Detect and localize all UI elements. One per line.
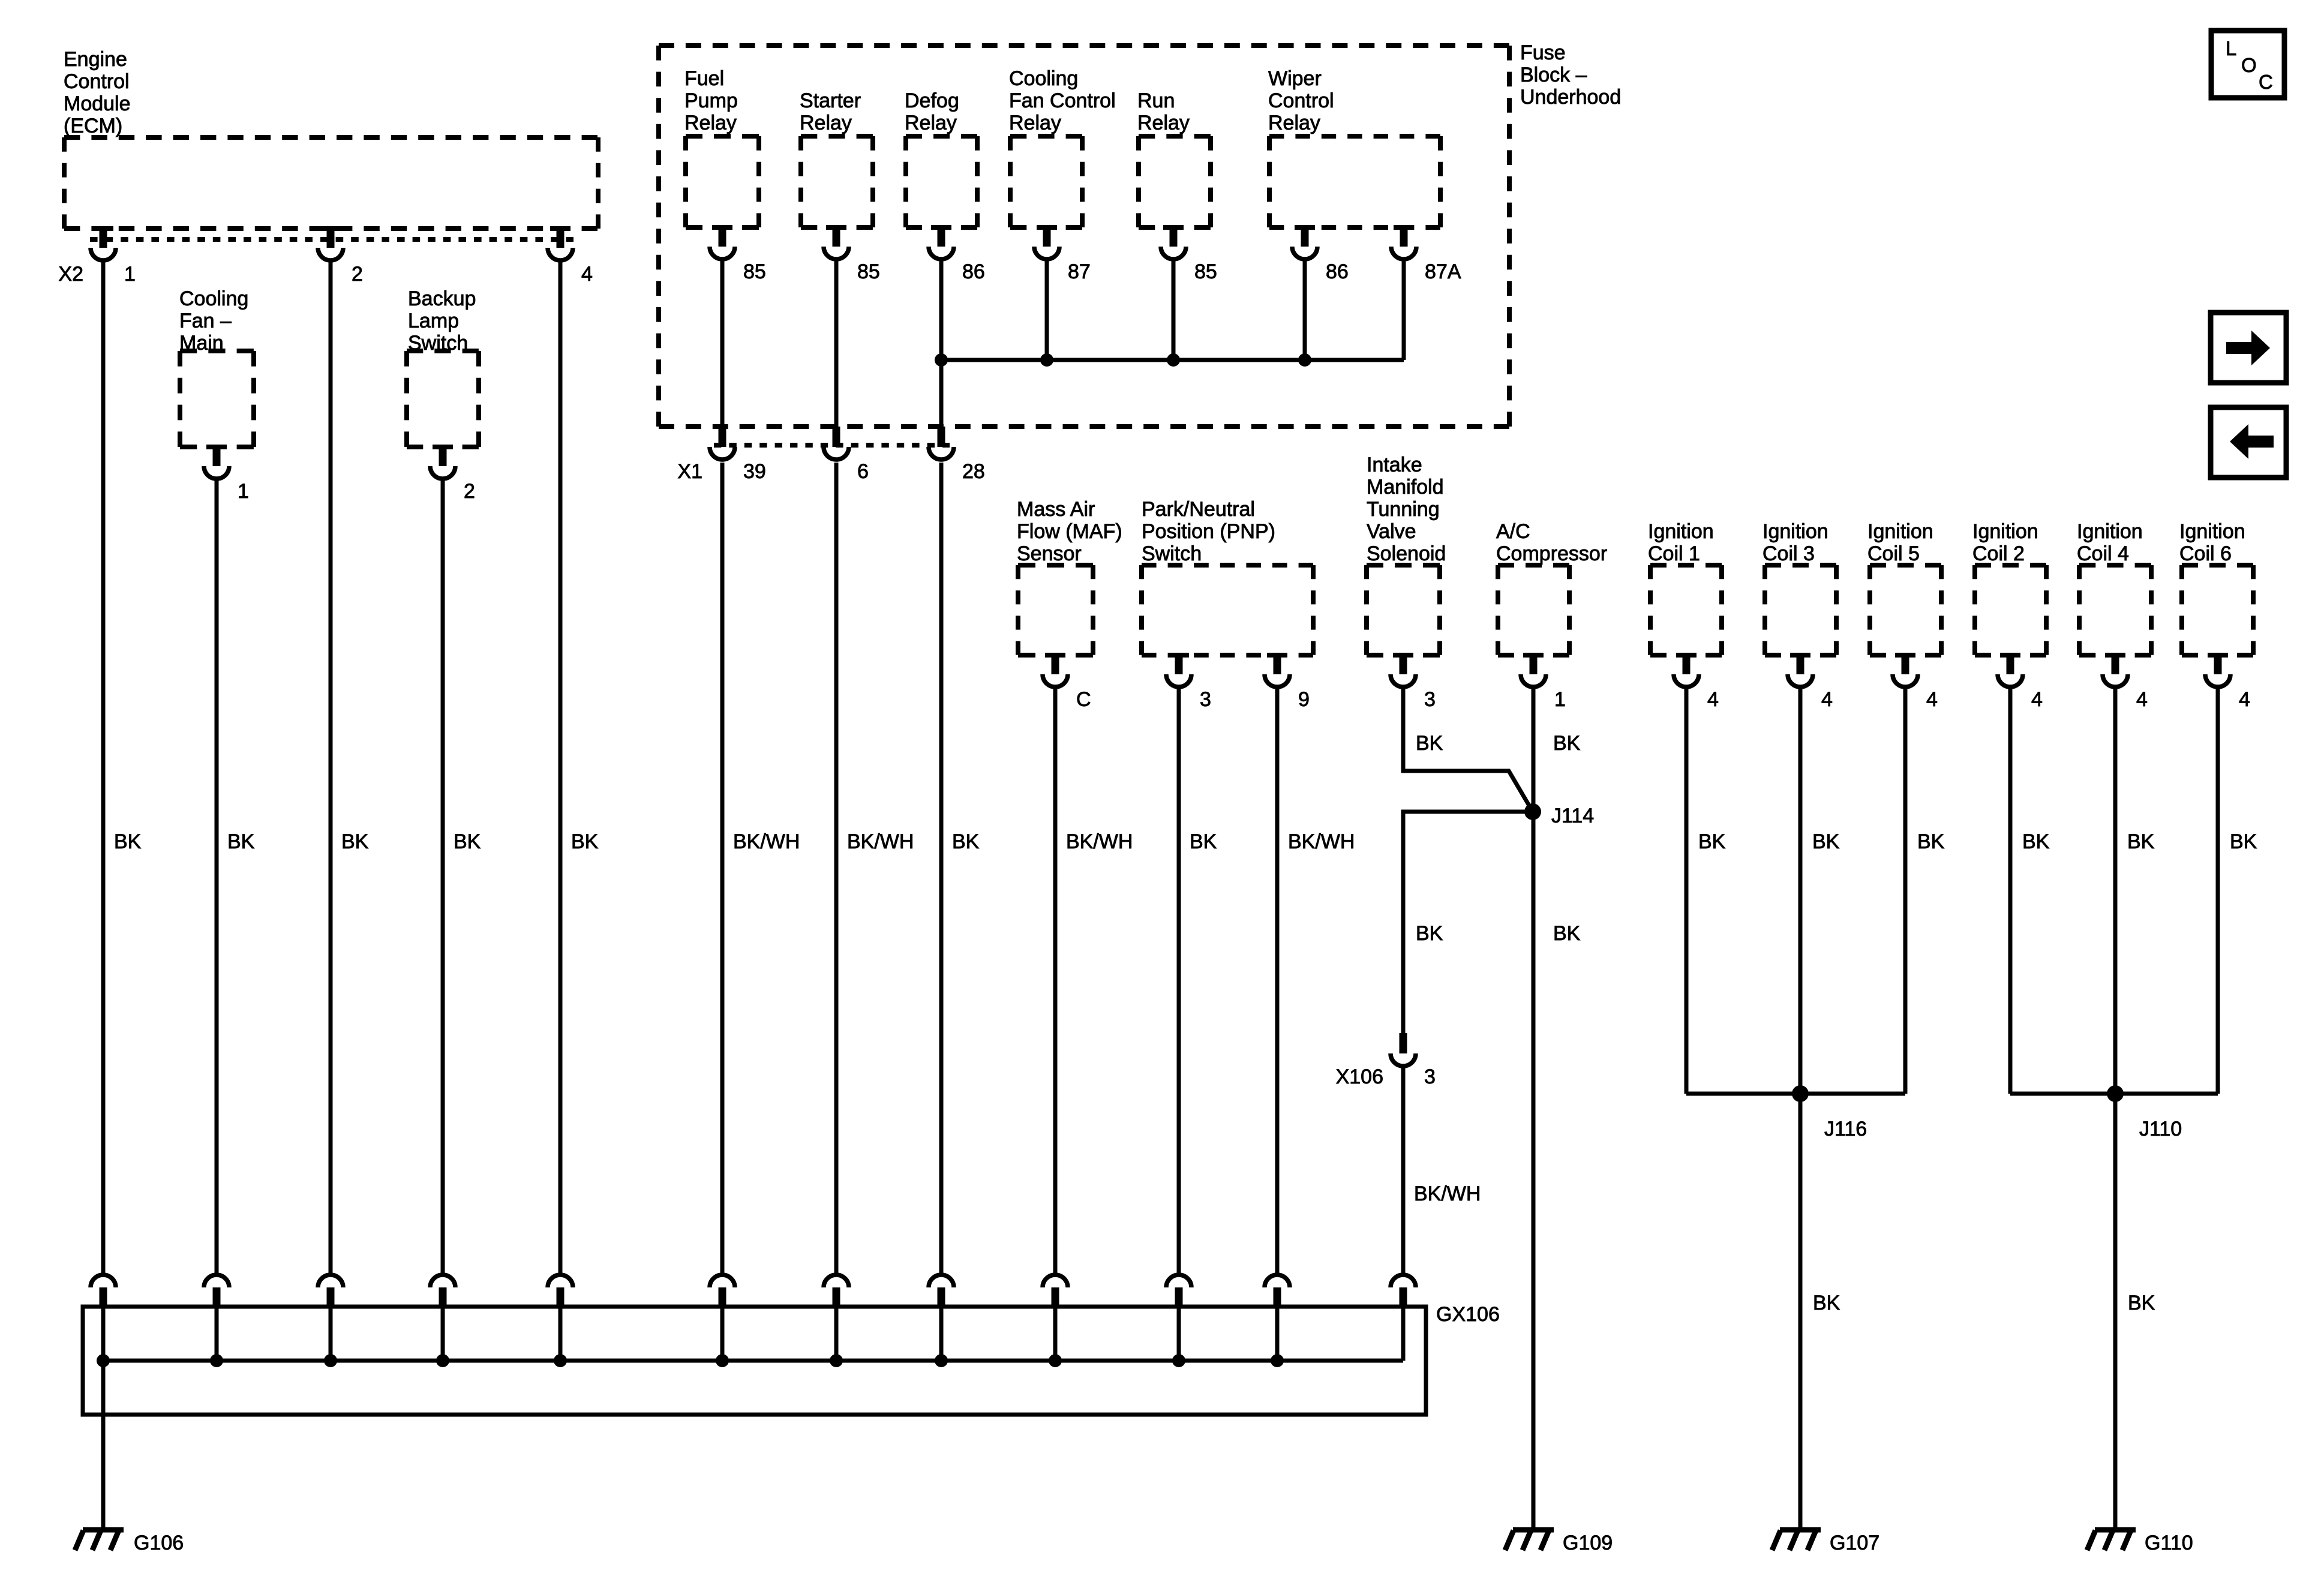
wire defog relay to X1 — [939, 259, 944, 428]
junction bus/87 — [1040, 353, 1053, 367]
svg-text:BK: BK — [2128, 1292, 2155, 1314]
label BK coil 2 — [2022, 830, 2050, 853]
arrow box left — [2211, 407, 2286, 478]
wire terminal stub — [720, 1307, 725, 1361]
svg-text:Switch: Switch — [1142, 542, 1202, 565]
wire relay 85 (run) to bus — [1172, 259, 1176, 360]
svg-text:Cooling: Cooling — [1009, 67, 1078, 90]
junction GX106 x=1965 — [1172, 1354, 1185, 1367]
svg-text:Wiper: Wiper — [1268, 67, 1322, 90]
wire x=1965 to GX106 (BK) — [1177, 686, 1181, 1274]
connector face X1 dotted line — [714, 443, 950, 448]
svg-text:J116: J116 — [1824, 1118, 1867, 1140]
bus wire inside fuse block — [941, 358, 1404, 362]
label BK coil 1 — [1698, 830, 1726, 853]
wire x=2129 to GX106 (BK/WH) — [1275, 686, 1280, 1274]
ECM box — [64, 137, 598, 229]
svg-text:1: 1 — [238, 480, 249, 503]
wire ignition coil 1 (BK) — [1685, 688, 1689, 1094]
label BK/WH — [1288, 830, 1355, 853]
Cooling Fan Control Relay box — [1010, 136, 1082, 227]
wire terminal stub — [441, 1307, 445, 1361]
pin X1-39 — [710, 427, 766, 483]
connector GX106 terminal x=551 — [318, 1275, 343, 1307]
pin X2-1 — [91, 226, 136, 286]
pin Ignition Coil 4 4 — [2103, 653, 2148, 711]
svg-text:BK: BK — [454, 830, 481, 853]
svg-text:1: 1 — [124, 263, 136, 286]
svg-text:BK: BK — [2022, 830, 2050, 853]
wire x=934 to GX106 (BK) — [559, 260, 563, 1274]
wire x=1394 to GX106 (BK/WH) — [834, 463, 839, 1274]
connector GX106 terminal x=2129 — [1265, 1275, 1290, 1307]
svg-text:BK: BK — [1553, 922, 1581, 945]
wire terminal stub — [1177, 1307, 1181, 1361]
label BK G110 wire — [2128, 1292, 2155, 1314]
wire X106 to GX106 (BK/WH) — [1401, 1067, 1406, 1274]
svg-text:Underhood: Underhood — [1520, 86, 1621, 109]
label Ignition Coil 2 — [1972, 520, 2038, 565]
svg-text:Manifold: Manifold — [1367, 476, 1444, 499]
svg-text:Run: Run — [1137, 89, 1175, 112]
svg-text:J110: J110 — [2139, 1118, 2182, 1140]
junction GX106 x=1759 — [1049, 1354, 1062, 1367]
svg-text:BK/WH: BK/WH — [1288, 830, 1355, 853]
svg-text:2: 2 — [352, 263, 363, 286]
svg-text:4: 4 — [1926, 688, 1938, 711]
label BK/WH — [1066, 830, 1133, 853]
wire ignition coil 5 (BK) — [1903, 688, 1908, 1094]
svg-text:Lamp: Lamp — [408, 310, 459, 332]
svg-text:Backup: Backup — [408, 287, 476, 310]
wire ignition coil 6 (BK) — [2216, 688, 2220, 1094]
Mass Air Flow (MAF) Sensor box — [1018, 565, 1093, 655]
junction GX106 x=361 — [210, 1354, 223, 1367]
connector GX106 terminal x=361 — [204, 1275, 229, 1307]
label BK — [114, 830, 142, 853]
svg-text:4: 4 — [2136, 688, 2148, 711]
label Engine Control Module (ECM) — [64, 48, 131, 137]
pin X2-2 — [318, 226, 363, 286]
Intake Manifold Tunning Valve Solenoid box — [1367, 565, 1440, 655]
svg-text:BK: BK — [952, 830, 980, 853]
svg-text:Relay: Relay — [1137, 112, 1190, 134]
pin Backup Lamp Switch 2 — [430, 445, 475, 503]
svg-text:G109: G109 — [1563, 1532, 1613, 1554]
label BK — [341, 830, 369, 853]
GX106 bus wire — [103, 1359, 1403, 1363]
GX106 box — [83, 1307, 1426, 1415]
junction GX106 x=1569 — [935, 1354, 948, 1367]
pin Park/Neutral Position (PNP) Switch 3 — [1166, 653, 1211, 711]
connector GX106 terminal x=934 — [548, 1275, 573, 1307]
svg-text:Position (PNP): Position (PNP) — [1142, 520, 1275, 543]
ground G110 — [2087, 1530, 2193, 1554]
wire solenoid pin 3 to J114 (BK) — [1403, 686, 1533, 812]
svg-text:BK: BK — [1813, 1292, 1840, 1314]
pin Ignition Coil 5 4 — [1893, 653, 1938, 711]
wire J114 to X106 (BK) — [1403, 812, 1533, 1034]
connector GX106 terminal x=2339 — [1391, 1275, 1416, 1307]
label Starter Relay — [800, 89, 861, 134]
Wiper Control Relay box — [1269, 136, 1440, 227]
label Mass Air Flow (MAF) Sensor — [1017, 498, 1122, 565]
svg-text:Block –: Block – — [1520, 64, 1587, 86]
svg-text:Ignition: Ignition — [2179, 520, 2245, 543]
label BK — [227, 830, 255, 853]
svg-text:2: 2 — [464, 480, 475, 503]
svg-text:Coil 1: Coil 1 — [1648, 542, 1700, 565]
label Backup Lamp Switch — [408, 287, 476, 355]
svg-text:Ignition: Ignition — [2077, 520, 2143, 543]
Run Relay box — [1139, 136, 1211, 227]
label BK A/C wire lower — [1553, 922, 1581, 945]
svg-text:Relay: Relay — [800, 112, 852, 134]
label BK A/C wire upper — [1553, 732, 1581, 755]
wire terminal stub — [1053, 1307, 1058, 1361]
svg-text:BK: BK — [2230, 830, 2257, 853]
pin Park/Neutral Position (PNP) Switch 9 — [1265, 653, 1310, 711]
svg-text:Tunning: Tunning — [1367, 498, 1440, 521]
label BK — [454, 830, 481, 853]
svg-text:Control: Control — [1268, 89, 1334, 112]
pin Intake Manifold Tunning Valve Solenoid 3 — [1391, 653, 1436, 711]
connector GX106 terminal x=1204 — [710, 1275, 735, 1307]
label Fuel Pump Relay — [684, 67, 738, 134]
svg-text:Coil 4: Coil 4 — [2077, 542, 2129, 565]
svg-text:85: 85 — [1194, 260, 1217, 283]
Defog Relay box — [906, 136, 977, 227]
svg-text:3: 3 — [1424, 688, 1436, 711]
pin Ignition Coil 1 4 — [1674, 653, 1719, 711]
svg-text:Coil 5: Coil 5 — [1867, 542, 1920, 565]
connector name X2 — [58, 263, 83, 286]
bus wire coils 1-3-5 — [1686, 1092, 1905, 1096]
ground G109 — [1505, 1530, 1613, 1554]
svg-text:BK/WH: BK/WH — [1414, 1182, 1481, 1205]
label Cooling Fan Control Relay — [1009, 67, 1116, 134]
pin Cooling Fan Control Relay 87 — [1034, 225, 1091, 283]
svg-text:4: 4 — [1821, 688, 1833, 711]
svg-text:6: 6 — [857, 460, 869, 483]
svg-text:X1: X1 — [677, 460, 702, 483]
junction GX106 x=934 — [554, 1354, 567, 1367]
svg-text:BK: BK — [341, 830, 369, 853]
wire terminal stub — [1275, 1307, 1280, 1361]
wire terminal stub — [1401, 1307, 1406, 1361]
svg-text:85: 85 — [743, 260, 766, 283]
svg-text:Ignition: Ignition — [1648, 520, 1714, 543]
wire terminal stub — [101, 1307, 106, 1361]
svg-text:BK/WH: BK/WH — [733, 830, 800, 853]
pin X2-4 — [548, 226, 593, 286]
svg-text:Fuse: Fuse — [1520, 41, 1566, 64]
wire terminal stub — [329, 1307, 333, 1361]
ground G107 — [1772, 1530, 1879, 1554]
svg-text:C: C — [2259, 71, 2273, 93]
svg-text:85: 85 — [857, 260, 880, 283]
svg-text:Valve: Valve — [1367, 520, 1416, 543]
label Ignition Coil 6 — [2179, 520, 2245, 565]
svg-text:Ignition: Ignition — [1972, 520, 2038, 543]
pin Ignition Coil 3 4 — [1788, 653, 1833, 711]
wire GX106 to G106 — [101, 1361, 106, 1529]
wire terminal stub — [939, 1307, 944, 1361]
svg-text:4: 4 — [2031, 688, 2043, 711]
connector face X2 dotted line — [90, 237, 574, 242]
svg-text:4: 4 — [2239, 688, 2250, 711]
junction GX106 x=172 — [97, 1354, 110, 1367]
svg-text:BK: BK — [114, 830, 142, 853]
wire terminal stub — [215, 1307, 219, 1361]
wire A/C compressor pin 1 to G109 (BK) — [1532, 686, 1536, 1529]
wire terminal stub — [834, 1307, 839, 1361]
connector GX106 terminal x=1759 — [1043, 1275, 1068, 1307]
svg-text:4: 4 — [1707, 688, 1719, 711]
svg-text:BK: BK — [1812, 830, 1840, 853]
svg-text:Fan Control: Fan Control — [1009, 89, 1116, 112]
svg-text:Ignition: Ignition — [1867, 520, 1933, 543]
label Defog Relay — [905, 89, 959, 134]
connector GX106 terminal x=172 — [91, 1275, 116, 1307]
svg-text:87: 87 — [1068, 260, 1091, 283]
svg-text:X2: X2 — [58, 263, 83, 286]
connector X106 pin 3 — [1336, 1033, 1436, 1088]
svg-text:39: 39 — [743, 460, 766, 483]
label BK coil 5 — [1917, 830, 1945, 853]
pin X1-28 — [929, 427, 985, 483]
pin Ignition Coil 6 4 — [2205, 653, 2250, 711]
junction bus/85 — [1167, 353, 1180, 367]
connector GX106 terminal x=1394 — [824, 1275, 849, 1307]
pin Cooling Fan 1 — [204, 445, 249, 503]
label BK G107 wire — [1813, 1292, 1840, 1314]
pin Fuel Pump Relay 85 — [710, 225, 766, 283]
svg-text:BK: BK — [1698, 830, 1726, 853]
svg-text:BK: BK — [1190, 830, 1217, 853]
wire x=551 to GX106 (BK) — [329, 260, 333, 1274]
Ignition Coil 3 box — [1765, 565, 1836, 655]
svg-text:87A: 87A — [1425, 260, 1461, 283]
svg-text:Fan –: Fan – — [179, 310, 232, 332]
svg-text:3: 3 — [1200, 688, 1211, 711]
wire x=1204 to GX106 (BK/WH) — [720, 463, 725, 1274]
Ignition Coil 5 box — [1870, 565, 1941, 655]
svg-text:Relay: Relay — [905, 112, 957, 134]
svg-text:9: 9 — [1298, 688, 1310, 711]
junction GX106 x=738 — [436, 1354, 449, 1367]
svg-text:BK: BK — [1917, 830, 1945, 853]
wire x=1759 to GX106 (BK/WH) — [1053, 686, 1058, 1274]
svg-text:Starter: Starter — [800, 89, 861, 112]
Backup Lamp Switch box — [407, 351, 479, 447]
wire fuel pump relay to X1 — [720, 259, 725, 428]
Ignition Coil 2 box — [1975, 565, 2046, 655]
svg-text:J114: J114 — [1551, 804, 1594, 827]
svg-text:BK: BK — [1416, 732, 1443, 755]
bus wire coils 2-4-6 — [2010, 1092, 2218, 1096]
wire terminal stub — [559, 1307, 563, 1361]
junction J114 — [1524, 803, 1594, 827]
wire ignition coil 2 (BK) — [2008, 688, 2013, 1094]
label Ignition Coil 5 — [1867, 520, 1933, 565]
svg-text:Coil 2: Coil 2 — [1972, 542, 2025, 565]
Fuse Block - Underhood box — [659, 46, 1509, 427]
wire ignition coil 3 to G107 (BK) — [1798, 688, 1803, 1529]
svg-text:Relay: Relay — [1009, 112, 1061, 134]
svg-text:G107: G107 — [1830, 1532, 1879, 1554]
label Ignition Coil 3 — [1762, 520, 1828, 565]
svg-text:86: 86 — [962, 260, 985, 283]
label BK — [571, 830, 599, 853]
label BK J114-X106 wire — [1416, 922, 1443, 945]
svg-text:Relay: Relay — [1268, 112, 1320, 134]
label Fuse Block - Underhood — [1520, 41, 1621, 109]
pin X1-6 — [824, 427, 869, 483]
Starter Relay box — [801, 136, 873, 227]
pin Defog Relay 86 — [929, 225, 985, 283]
svg-text:X106: X106 — [1336, 1065, 1383, 1088]
Cooling Fan - Main box — [180, 351, 254, 447]
Fuel Pump Relay box — [686, 136, 759, 227]
connector GX106 terminal x=1965 — [1166, 1275, 1191, 1307]
svg-text:BK: BK — [2127, 830, 2155, 853]
svg-text:Ignition: Ignition — [1762, 520, 1828, 543]
wire relay 87 to bus — [1045, 259, 1049, 360]
junction GX106 x=1204 — [716, 1354, 729, 1367]
svg-text:Coil 3: Coil 3 — [1762, 542, 1815, 565]
ground G106 — [75, 1530, 184, 1554]
label BK/WH X106 wire — [1414, 1182, 1481, 1205]
Park/Neutral Position (PNP) Switch box — [1142, 565, 1313, 655]
svg-text:Relay: Relay — [684, 112, 737, 134]
label BK — [952, 830, 980, 853]
svg-text:BK/WH: BK/WH — [1066, 830, 1133, 853]
junction GX106 x=551 — [324, 1354, 337, 1367]
svg-text:G106: G106 — [134, 1532, 184, 1554]
label Cooling Fan - Main — [179, 287, 248, 355]
svg-text:Control: Control — [64, 70, 130, 93]
junction J110 — [2107, 1085, 2182, 1140]
A/C Compressor box — [1498, 565, 1569, 655]
wire relay 87A to bus — [1402, 259, 1406, 360]
pin Run Relay 85 — [1161, 225, 1217, 283]
Ignition Coil 6 box — [2182, 565, 2253, 655]
pin Mass Air Flow (MAF) Sensor C — [1043, 653, 1091, 711]
svg-text:Compressor: Compressor — [1496, 542, 1607, 565]
svg-text:Cooling: Cooling — [179, 287, 248, 310]
pin A/C Compressor 1 — [1521, 653, 1566, 711]
label Run Relay — [1137, 89, 1190, 134]
junction J116 — [1792, 1085, 1867, 1140]
junction on defog wire — [935, 353, 948, 367]
svg-text:4: 4 — [581, 263, 593, 286]
junction bus/86 — [1298, 353, 1311, 367]
svg-text:BK: BK — [1416, 922, 1443, 945]
label BK solenoid wire — [1416, 732, 1443, 755]
wire ignition coil 4 to G110 (BK) — [2113, 688, 2118, 1529]
label BK coil 3 — [1812, 830, 1840, 853]
junction GX106 x=1394 — [830, 1354, 843, 1367]
label A/C Compressor — [1496, 520, 1607, 565]
svg-text:C: C — [1076, 688, 1091, 711]
svg-text:A/C: A/C — [1496, 520, 1530, 543]
svg-text:Fuel: Fuel — [684, 67, 724, 90]
label Park/Neutral Position (PNP) Switch — [1142, 498, 1275, 565]
svg-text:G110: G110 — [2145, 1532, 2193, 1554]
wire relay 86 (wiper) to bus — [1303, 259, 1307, 360]
svg-text:BK: BK — [571, 830, 599, 853]
svg-text:(ECM): (ECM) — [64, 115, 122, 137]
pin Starter Relay 85 — [824, 225, 880, 283]
label BK/WH — [847, 830, 914, 853]
Ignition Coil 4 box — [2079, 565, 2151, 655]
svg-text:BK/WH: BK/WH — [847, 830, 914, 853]
svg-text:Sensor: Sensor — [1017, 542, 1082, 565]
junction GX106 x=2129 — [1271, 1354, 1284, 1367]
svg-text:BK: BK — [1553, 732, 1581, 755]
svg-text:3: 3 — [1424, 1065, 1436, 1088]
pin Wiper Control Relay 86 — [1292, 225, 1349, 283]
svg-text:Park/Neutral: Park/Neutral — [1142, 498, 1255, 521]
arrow box right — [2211, 313, 2286, 383]
svg-text:BK: BK — [227, 830, 255, 853]
label BK coil 4 — [2127, 830, 2155, 853]
label GX106 — [1436, 1303, 1500, 1326]
svg-text:Engine: Engine — [64, 48, 127, 71]
connector GX106 terminal x=1569 — [929, 1275, 954, 1307]
label Wiper Control Relay — [1268, 67, 1334, 134]
svg-text:Flow (MAF): Flow (MAF) — [1017, 520, 1122, 543]
wire x=361 to GX106 (BK) — [215, 478, 219, 1274]
svg-text:L: L — [2226, 37, 2236, 59]
wire starter relay to X1 — [834, 259, 839, 428]
svg-text:Pump: Pump — [684, 89, 738, 112]
LOC reference box — [2211, 31, 2284, 98]
svg-text:Module: Module — [64, 92, 131, 115]
Ignition Coil 1 box — [1650, 565, 1722, 655]
wire x=738 to GX106 (BK) — [441, 478, 445, 1274]
svg-text:Coil 6: Coil 6 — [2179, 542, 2232, 565]
label Ignition Coil 1 — [1648, 520, 1714, 565]
svg-text:GX106: GX106 — [1436, 1303, 1500, 1326]
svg-text:Solenoid: Solenoid — [1367, 542, 1446, 565]
label Intake Manifold Tunning Valve Solenoid — [1367, 454, 1446, 565]
wire x=172 to GX106 (BK) — [101, 260, 106, 1274]
svg-text:Intake: Intake — [1367, 454, 1422, 476]
svg-text:1: 1 — [1554, 688, 1566, 711]
svg-text:Mass Air: Mass Air — [1017, 498, 1095, 521]
svg-text:O: O — [2241, 54, 2257, 76]
label BK coil 6 — [2230, 830, 2257, 853]
connector GX106 terminal x=738 — [430, 1275, 455, 1307]
svg-text:86: 86 — [1326, 260, 1349, 283]
svg-text:28: 28 — [962, 460, 985, 483]
connector name X1 — [677, 460, 702, 483]
label BK — [1190, 830, 1217, 853]
label Ignition Coil 4 — [2077, 520, 2143, 565]
pin Ignition Coil 2 4 — [1998, 653, 2043, 711]
svg-text:Defog: Defog — [905, 89, 959, 112]
pin Wiper Control Relay 87A — [1391, 225, 1461, 283]
label BK/WH — [733, 830, 800, 853]
wire x=1569 to GX106 (BK) — [939, 463, 944, 1274]
